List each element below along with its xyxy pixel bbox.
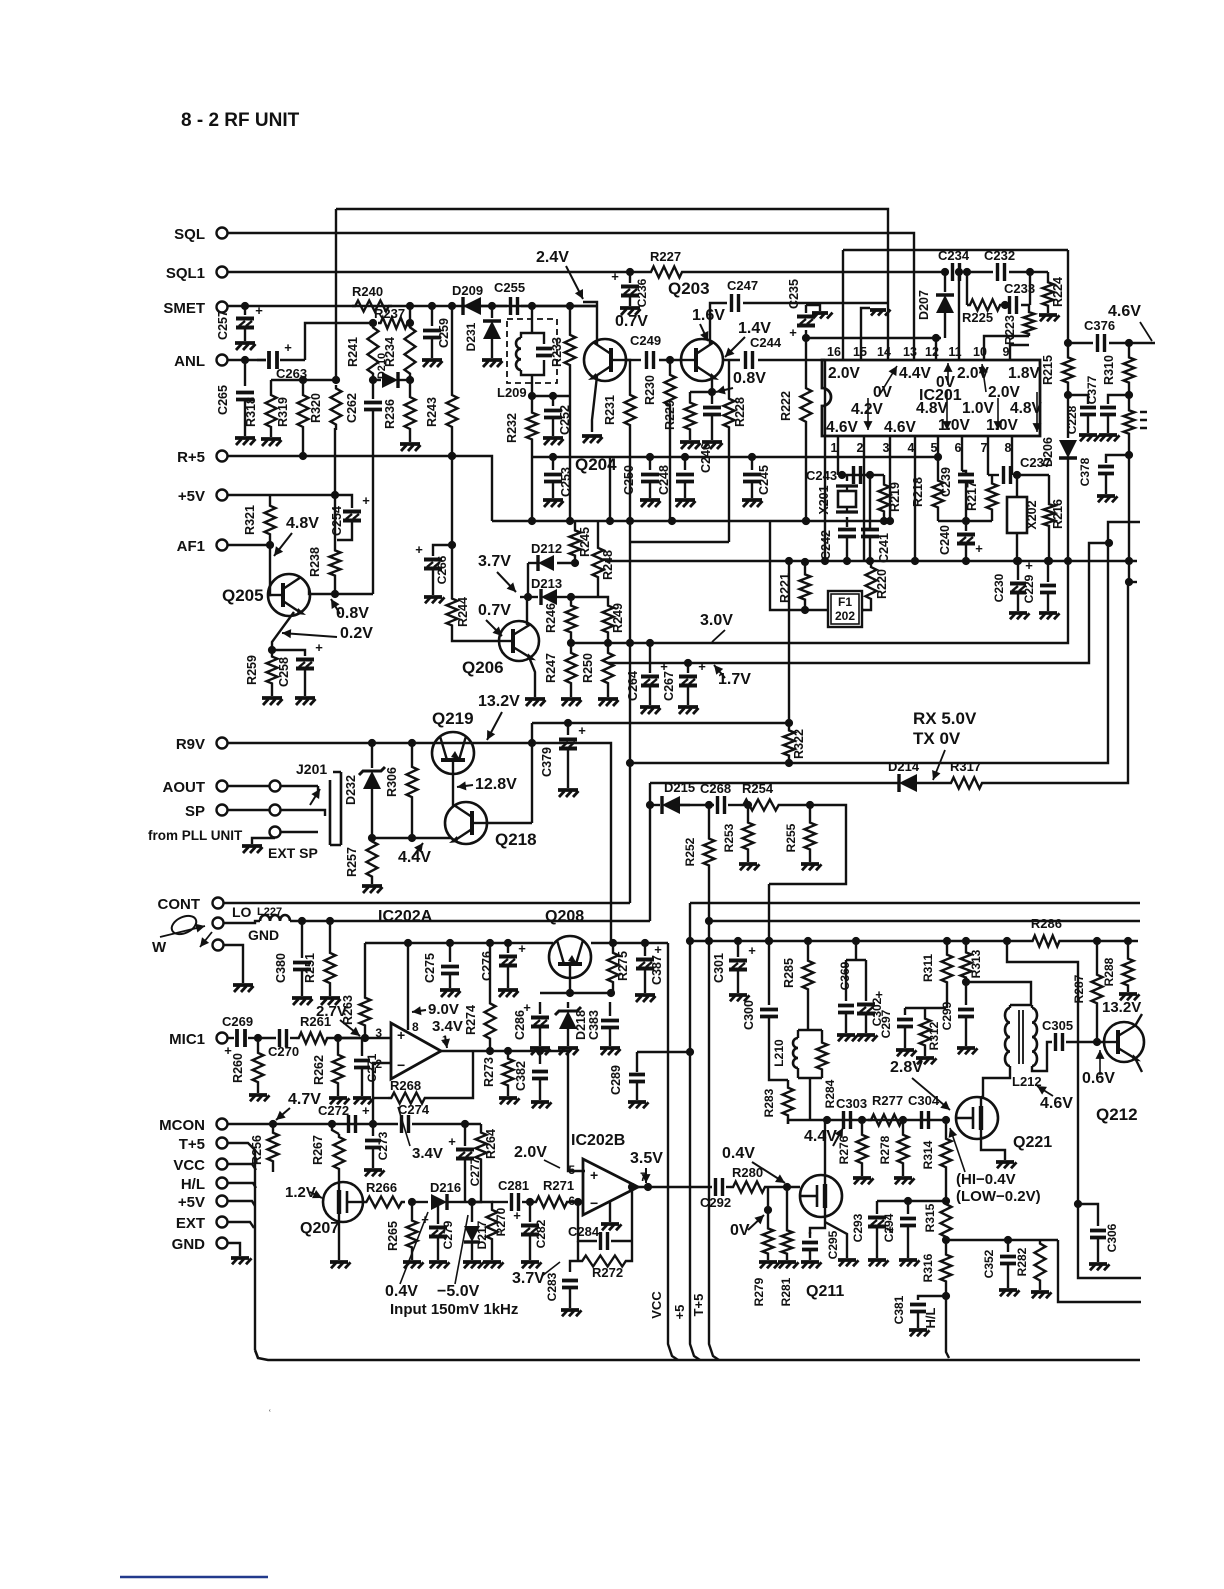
node C378 line xyxy=(1125,451,1133,459)
svg-text:R284: R284 xyxy=(823,1079,837,1108)
svg-text:1.0V: 1.0V xyxy=(986,417,1019,434)
svg-text:R311: R311 xyxy=(921,954,935,982)
svg-text:+: + xyxy=(397,1027,405,1043)
svg-text:+: + xyxy=(654,942,662,957)
junction rail943 xyxy=(486,939,494,947)
resistor R264 xyxy=(480,1124,482,1130)
capacitor C381 xyxy=(918,1296,946,1300)
svg-text:0V: 0V xyxy=(873,384,893,401)
resistor R216 xyxy=(1048,475,1050,502)
wire pin16 riser xyxy=(842,250,844,360)
capacitor C239 xyxy=(958,475,974,482)
node R244 R+5 xyxy=(448,452,456,460)
wire Q218 emitter row xyxy=(372,837,452,839)
svg-text:L209: L209 xyxy=(497,385,527,400)
svg-text:R236: R236 xyxy=(383,399,397,429)
IC IC201 body xyxy=(822,360,1040,436)
svg-text:16: 16 xyxy=(827,345,841,359)
feedback R272 xyxy=(577,1241,579,1261)
ground R236 xyxy=(409,432,411,442)
svg-text:R217: R217 xyxy=(965,481,979,511)
ground C259 xyxy=(422,358,442,362)
junction C273 top xyxy=(369,1120,377,1128)
wire R281 drop xyxy=(786,1187,788,1228)
junction C289 +5 xyxy=(686,1048,694,1056)
resistor R271 xyxy=(533,1197,570,1208)
transistor Q207 fet xyxy=(323,1182,363,1222)
resistor R276 xyxy=(861,1120,863,1132)
wire x650 column xyxy=(649,783,651,921)
wire +5 line xyxy=(690,903,700,1360)
junction 3.0V line xyxy=(604,639,612,647)
ground Q221 xyxy=(996,1160,1014,1164)
node C376 right xyxy=(1125,339,1133,347)
resistor R241 xyxy=(368,323,379,378)
wire C286 row xyxy=(540,992,611,994)
wire top frame to IC201 pin14 xyxy=(336,209,888,360)
resistor R313 xyxy=(965,941,967,950)
svg-text:D232: D232 xyxy=(344,775,358,805)
resistor R237 xyxy=(378,318,410,329)
node C232 right xyxy=(1026,268,1034,276)
wire 13.2V rail right xyxy=(631,522,1140,763)
capacitor C277 xyxy=(464,1124,466,1146)
svg-text:2.0V: 2.0V xyxy=(988,384,1021,401)
resistor R287 xyxy=(1096,941,1098,972)
wire pin2 riser R220 xyxy=(864,436,871,564)
ground R251 xyxy=(320,996,340,1000)
svg-text:R260: R260 xyxy=(231,1053,245,1083)
svg-text:2.8V: 2.8V xyxy=(890,1059,923,1076)
diode D212 xyxy=(557,562,575,564)
wire x335 column lower xyxy=(334,428,336,548)
wire Q219-Q218 link xyxy=(452,774,454,806)
svg-text:R9V: R9V xyxy=(176,736,205,753)
ground R270 xyxy=(483,1260,501,1264)
resistor R262 xyxy=(337,1038,339,1052)
svg-text:5: 5 xyxy=(568,1163,575,1177)
junction C306 top xyxy=(1074,1200,1082,1208)
wire bus 561 xyxy=(605,560,1137,562)
svg-text:R275: R275 xyxy=(616,951,630,981)
resistor R315 xyxy=(941,1201,952,1240)
terminal +5V xyxy=(217,1196,228,1207)
capacitor C268 xyxy=(718,796,725,814)
transistor Q212 xyxy=(1104,1022,1144,1062)
junction bus561 xyxy=(866,557,874,565)
wire Q203 emitter xyxy=(690,376,712,392)
svg-text:C305: C305 xyxy=(1042,1018,1073,1033)
svg-text:4.4V: 4.4V xyxy=(398,849,431,866)
wire R316 row right xyxy=(946,1239,1040,1241)
terminal SQL xyxy=(217,228,228,239)
wire D214 line xyxy=(650,782,898,784)
node SMET-C257 xyxy=(241,302,249,310)
svg-text:R223: R223 xyxy=(1003,315,1017,345)
diode D206 xyxy=(1067,395,1069,438)
svg-text:C276: C276 xyxy=(480,951,494,981)
svg-text:EXT: EXT xyxy=(176,1215,205,1232)
wire vertical from top frame xyxy=(335,209,337,382)
capacitor C257 xyxy=(244,306,246,315)
svg-text:L210: L210 xyxy=(772,1039,786,1067)
resistor R236 xyxy=(409,380,411,394)
resistor R246 xyxy=(570,597,572,603)
svg-text:R225: R225 xyxy=(962,310,993,325)
svg-text:4: 4 xyxy=(908,441,915,455)
svg-text:4.4V: 4.4V xyxy=(899,365,932,382)
svg-text:+: + xyxy=(284,340,292,355)
resistor R317 xyxy=(948,778,985,789)
junction R273 out xyxy=(504,1047,512,1055)
capacitor C259 xyxy=(431,306,433,326)
ground C378 xyxy=(1097,494,1115,498)
capacitor C380 xyxy=(301,921,303,958)
op-amp IC202B xyxy=(583,1159,638,1215)
wire Q212 collector stub xyxy=(1135,1014,1142,1026)
junction bus561 xyxy=(785,557,793,565)
capacitor C295 xyxy=(809,1232,811,1238)
capacitor C228 xyxy=(1068,395,1088,404)
wire R237 to SMET line xyxy=(409,306,411,323)
svg-text:−: − xyxy=(590,1195,598,1211)
svg-text:C294: C294 xyxy=(882,1213,896,1242)
wire Q207 source gnd xyxy=(338,1222,340,1260)
svg-text:7: 7 xyxy=(981,441,988,455)
terminal T+5 xyxy=(217,1138,228,1149)
ground Q206 xyxy=(525,697,545,701)
svg-text:R+5: R+5 xyxy=(177,449,205,466)
wire 1.7V line xyxy=(608,543,1109,663)
wire y250 line xyxy=(843,249,1068,251)
wire feedback to out xyxy=(631,1187,633,1241)
node C234 right xyxy=(963,268,971,276)
capacitor C250 xyxy=(649,457,651,470)
capacitor C235 xyxy=(805,330,807,338)
resistor R248 xyxy=(597,521,599,545)
resistor R260 xyxy=(257,1038,259,1050)
svg-text:R317: R317 xyxy=(950,759,981,774)
node rail C250 xyxy=(646,453,654,461)
svg-text:from PLL UNIT: from PLL UNIT xyxy=(148,828,243,843)
node R221 top xyxy=(801,558,809,566)
node R240-R237 left xyxy=(369,319,377,327)
svg-text:MIC1: MIC1 xyxy=(169,1031,205,1048)
svg-text:R254: R254 xyxy=(742,781,774,796)
svg-text:3.7V: 3.7V xyxy=(478,553,511,570)
junction C383 row xyxy=(607,989,615,997)
capacitor C383 xyxy=(609,1002,611,1016)
junction bus561 xyxy=(911,557,919,565)
wire bus 941 right xyxy=(1062,940,1138,942)
ground Q211 d2 xyxy=(838,1258,856,1262)
ground C257 xyxy=(235,341,255,345)
transformer L212 xyxy=(1010,1004,1032,1006)
junction R271 C282 xyxy=(526,1198,534,1206)
svg-text:C382: C382 xyxy=(514,1061,528,1091)
svg-text:0V: 0V xyxy=(730,1222,750,1239)
capacitor C230 xyxy=(1017,561,1019,580)
resistor R278 xyxy=(902,1120,904,1132)
wire L209 to R233 bottom xyxy=(532,395,570,397)
svg-text:R319: R319 xyxy=(276,397,290,427)
resistor R225 xyxy=(967,300,1003,311)
svg-text:D217: D217 xyxy=(475,1220,489,1249)
junction C230 bus xyxy=(1014,557,1022,565)
capacitor C233 xyxy=(1010,296,1017,314)
junction D218 row xyxy=(566,989,574,997)
svg-text:1.6V: 1.6V xyxy=(692,307,725,324)
wire right column down xyxy=(1067,250,1069,343)
wire x610 column xyxy=(609,457,611,521)
svg-text:R271: R271 xyxy=(543,1178,574,1193)
capacitor C255 xyxy=(481,305,507,307)
ground C228 xyxy=(1079,433,1097,437)
diode D207 xyxy=(944,272,946,292)
junction bus941 xyxy=(962,937,970,945)
svg-text:C254: C254 xyxy=(330,506,344,536)
wire R322 from bus xyxy=(788,561,790,723)
svg-text:13.2V: 13.2V xyxy=(1102,999,1141,1016)
svg-text:0.7V: 0.7V xyxy=(478,602,511,619)
node R245 bottom xyxy=(571,559,579,567)
wire bus 521 xyxy=(492,520,890,522)
svg-text:AOUT: AOUT xyxy=(163,779,206,796)
svg-text:R233: R233 xyxy=(550,337,564,367)
capacitor C243 xyxy=(854,466,861,484)
ground C377 xyxy=(1099,433,1117,437)
ground C271 xyxy=(353,1096,371,1100)
svg-text:C232: C232 xyxy=(984,248,1015,263)
node R215 bottom xyxy=(1064,391,1072,399)
wire pin7 riser xyxy=(987,436,989,475)
ground C246 xyxy=(702,440,722,444)
svg-text:9: 9 xyxy=(1003,345,1010,359)
ground C248 xyxy=(675,498,695,502)
svg-text:4.8V: 4.8V xyxy=(286,515,319,532)
svg-text:Q206: Q206 xyxy=(462,658,504,677)
svg-text:R215: R215 xyxy=(1041,355,1055,385)
junction C352 top xyxy=(1004,1236,1012,1244)
svg-text:R306: R306 xyxy=(385,767,399,797)
svg-text:C248: C248 xyxy=(657,465,671,495)
ground R265 xyxy=(403,1260,421,1264)
capacitor C274 xyxy=(373,1123,398,1125)
ground IC202B xyxy=(609,1201,611,1222)
svg-text:C304: C304 xyxy=(908,1093,940,1108)
svg-text:R274: R274 xyxy=(464,1005,478,1035)
svg-text:C239: C239 xyxy=(939,467,953,497)
terminal MCON xyxy=(217,1119,228,1130)
svg-text:R253: R253 xyxy=(722,823,736,852)
junction bus561 xyxy=(962,557,970,565)
capacitor C241 xyxy=(869,475,871,528)
svg-text:3: 3 xyxy=(883,441,890,455)
junction D232 bottom xyxy=(368,834,376,842)
wire Q212 emitter stub xyxy=(1135,1058,1142,1072)
capacitor C237 xyxy=(1004,466,1011,484)
transistor Q211 fet xyxy=(800,1175,842,1217)
svg-text:C267: C267 xyxy=(662,671,676,701)
junction IC202B out xyxy=(644,1183,652,1191)
wire to right corner xyxy=(1058,1240,1141,1302)
junction R262 top xyxy=(334,1034,342,1042)
ground C295 xyxy=(801,1260,819,1264)
svg-text:C255: C255 xyxy=(494,280,525,295)
svg-text:D231: D231 xyxy=(464,322,478,351)
junction 3.0V line xyxy=(646,639,654,647)
wire R318/R319/R320 top xyxy=(271,379,336,381)
wire R+5 line xyxy=(228,456,492,521)
wire EXT drop2 xyxy=(228,1222,254,1228)
resistor R230 xyxy=(669,360,671,372)
ground R250 xyxy=(598,697,618,701)
svg-text:(LOW−0.2V): (LOW−0.2V) xyxy=(956,1188,1041,1205)
junction Q211 drain xyxy=(823,1116,831,1124)
wire C232 down to C233 xyxy=(1029,272,1031,305)
svg-text:3.5V: 3.5V xyxy=(630,1150,663,1167)
junction rail943 xyxy=(504,939,512,947)
svg-text:R247: R247 xyxy=(544,653,558,683)
capacitor C297 xyxy=(904,1008,906,1015)
svg-text:R286: R286 xyxy=(1031,916,1062,931)
wire T+5 feed line xyxy=(709,920,1140,922)
wire CONT line xyxy=(224,902,630,904)
wire LO line cont xyxy=(290,920,650,922)
crystal X202 box xyxy=(1016,475,1018,497)
ground R273 xyxy=(499,1096,517,1100)
junction bus941 xyxy=(852,937,860,945)
node X202 top xyxy=(1013,471,1021,479)
wire pin9 riser xyxy=(1010,345,1029,360)
junction R252 941 xyxy=(705,937,713,945)
junction fb out xyxy=(628,1183,636,1191)
svg-text:R268: R268 xyxy=(390,1078,421,1093)
svg-text:R243: R243 xyxy=(425,397,439,427)
svg-text:+5V: +5V xyxy=(178,1194,205,1211)
capacitor C303 xyxy=(844,1111,851,1129)
diode D218 zener xyxy=(567,1002,569,1008)
node rail C248 xyxy=(681,453,689,461)
junction R278 top xyxy=(899,1116,907,1124)
node R243 top xyxy=(448,302,456,310)
diode D214 xyxy=(899,774,917,792)
node C266 tap xyxy=(448,541,456,549)
svg-text:C303: C303 xyxy=(836,1096,867,1111)
svg-text:R283: R283 xyxy=(762,1088,776,1117)
svg-text:C230: C230 xyxy=(992,573,1006,602)
capacitor C262 xyxy=(372,380,374,399)
resistor R312 xyxy=(924,1008,926,1016)
node C259 top xyxy=(428,302,436,310)
svg-text:C306: C306 xyxy=(1105,1223,1119,1252)
svg-text:C229: C229 xyxy=(1022,574,1036,603)
svg-text:R316: R316 xyxy=(921,1253,935,1282)
svg-text:VCC: VCC xyxy=(649,1291,664,1319)
ground R288 xyxy=(1119,992,1137,996)
svg-text:8: 8 xyxy=(1005,441,1012,455)
wire x630 column down xyxy=(629,542,631,903)
resistor R273 xyxy=(507,1051,509,1056)
capacitor C270 xyxy=(258,1037,276,1039)
ground C383 xyxy=(600,1046,620,1050)
svg-text:C265: C265 xyxy=(216,385,230,415)
ground R247 xyxy=(561,697,581,701)
wire D212 elbow xyxy=(527,563,529,597)
svg-text:R276: R276 xyxy=(837,1135,851,1164)
diode D209 xyxy=(463,297,481,315)
node +5V x335 xyxy=(331,491,339,499)
svg-text:5: 5 xyxy=(931,441,938,455)
svg-text:C273: C273 xyxy=(376,1131,390,1160)
resistor R3xx cropped xyxy=(1128,395,1130,408)
wire GND terminal xyxy=(224,945,243,983)
svg-text:+: + xyxy=(415,542,423,557)
jack J201 contacts xyxy=(317,786,319,795)
svg-text:C266: C266 xyxy=(435,555,449,584)
leader 2.4V xyxy=(566,266,583,299)
svg-text:+: + xyxy=(1025,558,1033,573)
junction bus941 xyxy=(943,937,951,945)
wire D215 to C268 xyxy=(680,804,714,806)
capacitor C267 xyxy=(687,663,689,673)
svg-text:8: 8 xyxy=(412,1020,419,1034)
wire +5 feed line xyxy=(690,902,1140,904)
node R319 R+5 xyxy=(299,452,307,460)
feedback C284 xyxy=(578,1202,597,1241)
ground R281 xyxy=(778,1260,796,1264)
junction R279 top xyxy=(764,1206,772,1214)
svg-text:R249: R249 xyxy=(611,603,625,633)
svg-text:R228: R228 xyxy=(733,397,747,427)
svg-text:TX 0V: TX 0V xyxy=(913,729,961,748)
resistor R232 xyxy=(531,396,533,410)
wire Q206 emitter xyxy=(529,657,535,697)
diode D210 xyxy=(373,379,381,381)
wire SQL1 line after R227 xyxy=(685,271,945,273)
svg-text:R314: R314 xyxy=(921,1140,935,1169)
capacitor C269 xyxy=(228,1037,234,1039)
svg-text:8 - 2 RF UNIT: 8 - 2 RF UNIT xyxy=(181,110,300,131)
wire R243 down xyxy=(451,430,453,456)
wire 13.2V rail left xyxy=(532,722,789,724)
resistor R218 xyxy=(933,478,944,510)
svg-text:4.6V: 4.6V xyxy=(1108,303,1141,320)
svg-text:C242: C242 xyxy=(819,530,833,560)
svg-text:+: + xyxy=(611,269,619,284)
capacitor C352 xyxy=(1007,1240,1009,1252)
node AF1 R321 xyxy=(266,541,274,549)
svg-text:3.0V: 3.0V xyxy=(700,612,733,629)
svg-text:+: + xyxy=(362,493,370,508)
inductor L210 xyxy=(797,1030,799,1038)
svg-text:GND: GND xyxy=(172,1236,206,1253)
capacitor C379 xyxy=(567,723,569,735)
terminal VCC xyxy=(217,1159,228,1170)
wire C305 to Q212 xyxy=(1066,1041,1104,1043)
resistor R283 xyxy=(787,1080,789,1085)
ground C235 hook xyxy=(806,305,820,311)
junction C267 1.7V xyxy=(684,659,692,667)
capacitor C265 xyxy=(244,360,246,386)
junction bus561 xyxy=(1045,557,1053,565)
resistor R229 xyxy=(689,392,691,400)
ground C275 xyxy=(440,988,460,992)
ground R224 xyxy=(1047,308,1049,313)
resistor R261 xyxy=(296,1033,330,1044)
node D207 top xyxy=(941,268,949,276)
svg-text:T+5: T+5 xyxy=(179,1136,205,1153)
